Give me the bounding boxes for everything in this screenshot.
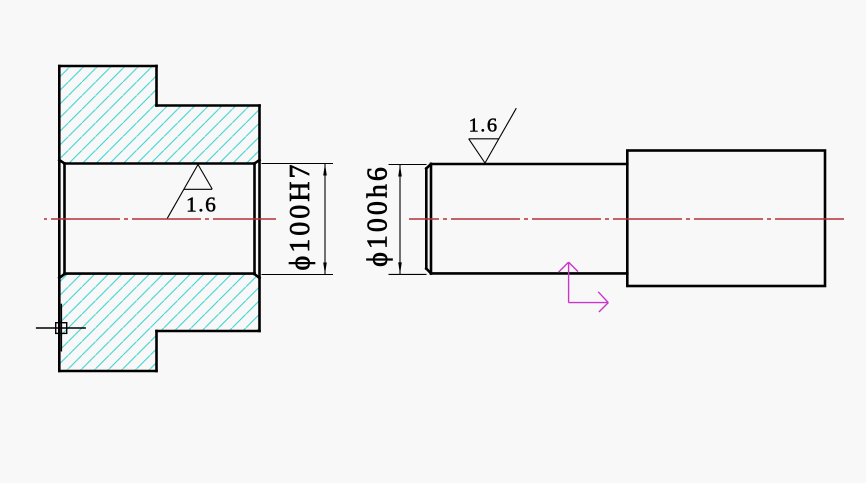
extension line bottom	[389, 273, 427, 275]
shaft profile (thick outline)	[426, 151, 825, 287]
hub bottom edge	[59, 370, 156, 373]
hub lower section hatch fill	[59, 274, 259, 371]
hub step vertical upper	[155, 66, 158, 106]
bore bottom edge	[65, 272, 255, 275]
hub step horizontal lower	[157, 330, 260, 333]
svg-text:ϕ100H7: ϕ100H7	[285, 162, 316, 271]
hub upper section hatch fill	[59, 66, 259, 164]
dimension line	[324, 164, 326, 275]
dimension φ100H7	[262, 164, 334, 275]
dimension arrow up	[398, 165, 402, 177]
hub outer profile (thick outline)	[59, 66, 259, 371]
hub right face	[258, 106, 261, 332]
hub step vertical lower	[155, 331, 158, 371]
hub left face	[58, 66, 61, 371]
dimension arrow down	[323, 263, 327, 275]
roughness symbol on shaft	[469, 108, 517, 163]
shaft chamfer top	[426, 164, 431, 169]
shaft chamfer junction line	[430, 164, 433, 273]
bore right chamfer line	[253, 164, 256, 275]
bore chamfer bottom-left	[59, 274, 64, 278]
dimension arrow down	[398, 262, 402, 274]
shaft end face	[425, 169, 428, 269]
orientation arrow (magenta)	[559, 262, 609, 312]
bore left chamfer line	[63, 164, 66, 275]
extension line top	[389, 164, 427, 166]
shaft bottom edge	[431, 272, 627, 275]
svg-text:1.6: 1.6	[186, 193, 217, 217]
crosshair cursor	[36, 304, 86, 352]
extension line top	[262, 163, 334, 165]
bore chamfer bottom-right	[255, 274, 260, 278]
bore chamfer top-right	[255, 160, 260, 164]
centerline right (red)	[409, 218, 847, 220]
extension line bottom	[262, 274, 334, 276]
roughness symbol in bore	[167, 165, 212, 219]
hub step horizontal upper	[157, 104, 260, 107]
hub top edge	[59, 65, 156, 68]
bore top edge	[65, 162, 255, 165]
shaft shoulder rectangle	[627, 151, 825, 287]
bore chamfer top-left	[59, 160, 64, 164]
svg-text:1.6: 1.6	[469, 115, 499, 137]
dimension arrow up	[323, 164, 327, 176]
shaft chamfer bottom	[426, 269, 431, 274]
svg-text:ϕ100h6: ϕ100h6	[363, 164, 394, 267]
dimension φ100h6	[389, 165, 427, 275]
shaft top edge	[431, 163, 627, 166]
dimension line	[399, 165, 401, 275]
centerline left (red)	[44, 218, 276, 220]
